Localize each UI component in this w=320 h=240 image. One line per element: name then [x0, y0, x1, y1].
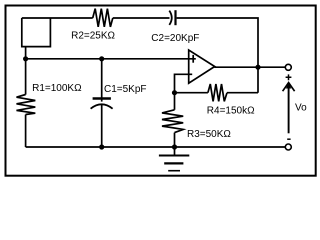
wire R3 top lead — [174, 93, 176, 110]
node C1 top junction dot — [99, 56, 104, 61]
Vo arrow — [283, 83, 295, 134]
resistor R1 — [17, 95, 36, 115]
op-amp U1 — [189, 50, 215, 83]
svg-text:Vo: Vo — [295, 102, 307, 113]
node feedback junction dot — [172, 90, 177, 95]
label + — [286, 74, 292, 80]
label - — [287, 138, 290, 140]
wire top-middle — [113, 17, 170, 19]
wire source stub down — [25, 47, 27, 59]
svg-text:C2=20KpF: C2=20KpF — [151, 33, 199, 44]
terminal + output — [285, 64, 291, 70]
resistor R4 — [208, 84, 227, 101]
wire top-left — [22, 17, 93, 19]
wire op-amp inverting input bend — [175, 74, 193, 92]
ground — [159, 147, 189, 171]
svg-text:R2=25KΩ: R2=25KΩ — [71, 30, 115, 41]
wire R3 bottom lead — [174, 133, 176, 147]
wire C1 bottom lead — [101, 105, 103, 147]
wire C1 top lead — [101, 59, 103, 102]
resistor R2 — [93, 9, 113, 27]
capacitor C1 — [91, 99, 113, 109]
node output junction dot — [255, 65, 260, 70]
capacitor C2 — [169, 10, 175, 25]
wire mid horizontal to op-amp + input — [26, 58, 196, 60]
wire feedback right segment — [227, 92, 258, 94]
wire left column lower — [25, 115, 27, 148]
wire left column upper — [25, 59, 27, 95]
resistor R3 — [162, 110, 183, 133]
node A junction dot — [23, 56, 28, 61]
wire bottom rail — [26, 146, 286, 148]
svg-text:R4=150kΩ: R4=150kΩ — [207, 106, 255, 117]
node C1 bottom junction dot — [99, 144, 104, 149]
svg-text:R3=50KΩ: R3=50KΩ — [187, 129, 231, 140]
svg-text:C1=5KpF: C1=5KpF — [104, 84, 147, 95]
wire top-right and right vertical — [177, 18, 258, 93]
node ground junction dot — [172, 144, 177, 149]
wire feedback left segment — [175, 92, 208, 94]
terminal - output — [285, 144, 291, 150]
source block — [22, 18, 51, 47]
wire op-amp output — [214, 66, 285, 68]
svg-text:R1=100KΩ: R1=100KΩ — [32, 83, 82, 94]
